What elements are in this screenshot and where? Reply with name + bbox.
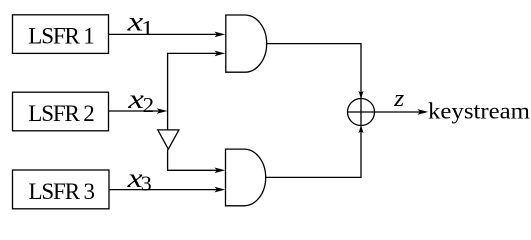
arrowhead z output [417,109,428,115]
svg-text:1: 1 [141,16,154,40]
svg-text:3: 3 [141,171,152,195]
wire U2 output to xor [267,44,361,127]
arrowhead xor top [358,91,363,99]
svg-text:2: 2 [143,93,155,117]
arrowhead x3 [214,187,225,193]
arrowhead x2 upper branch [214,51,225,57]
LFSR box 3 [13,170,110,209]
LFSR box 2 [13,92,109,131]
svg-text:x: x [127,84,144,114]
arrowhead x1 [214,32,225,38]
and-gate U3 [226,149,266,206]
wire inverter output [168,149,222,170]
and-gate U2 [226,15,267,72]
wire z output [347,111,426,113]
svg-text:LSFR 1: LSFR 1 [28,24,95,49]
arrowhead xor bottom [358,125,363,133]
LFSR box 1 [13,15,109,54]
arrowhead x2 junction [157,108,168,114]
svg-text:z: z [393,86,405,112]
svg-text:LSFR 2: LSFR 2 [28,101,95,126]
wire node x2 vertical up branch [168,53,222,129]
inverter U1 [158,130,179,149]
svg-text:LSFR 3: LSFR 3 [29,179,96,204]
arrowhead inverter out [214,168,225,174]
xor gate [348,99,375,126]
svg-text:keystream: keystream [428,99,530,125]
wire U3 output to xor [266,127,361,177]
wire x3 [109,189,222,191]
wire x1 [109,33,223,35]
wire x2 [109,110,165,112]
